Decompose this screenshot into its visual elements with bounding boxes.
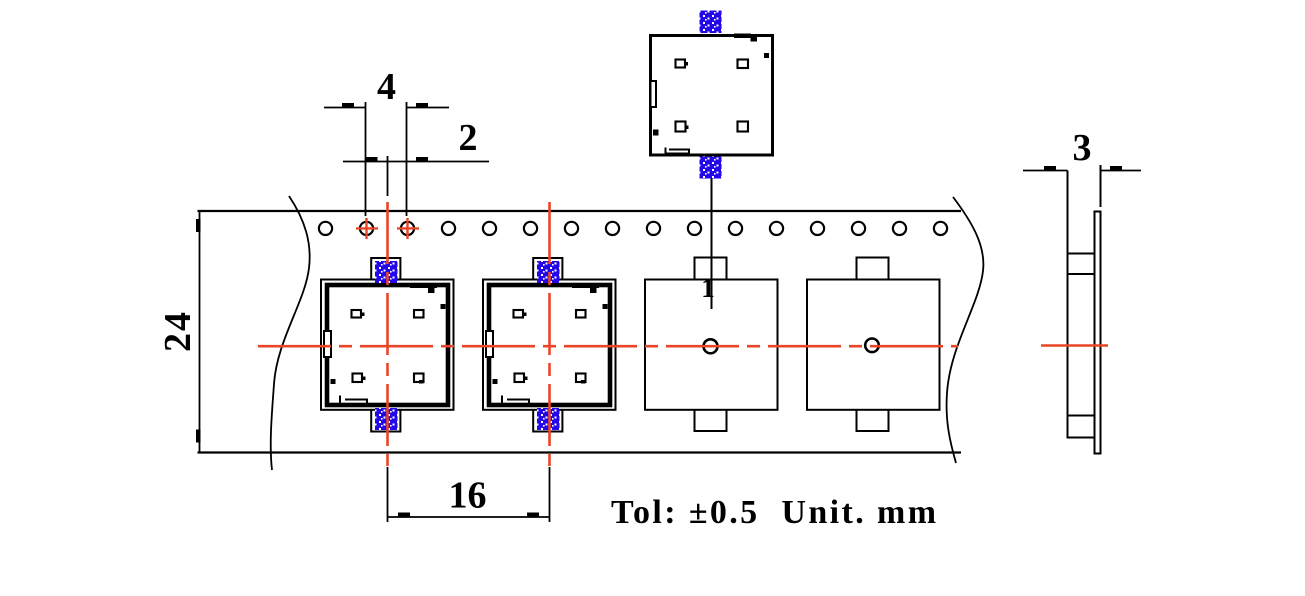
dim 2 <box>343 117 489 196</box>
bottom blue tab <box>700 156 722 179</box>
top blue tab <box>375 261 398 283</box>
component 2 left edge notch <box>486 331 493 357</box>
bottom blue tab <box>375 408 398 430</box>
bottom-left dot <box>653 130 659 136</box>
svg-text:4: 4 <box>377 66 396 108</box>
red centerline <box>1041 344 1108 347</box>
right extension <box>1100 165 1102 207</box>
left edge notch <box>324 331 331 357</box>
dim 24 <box>157 211 201 453</box>
bottom bar <box>666 148 690 154</box>
tape bottom edge <box>198 451 962 453</box>
left profile edge <box>1067 171 1069 439</box>
pocket 4 top notch <box>857 258 889 280</box>
component body <box>327 285 448 405</box>
center hole <box>704 339 718 353</box>
component 2 top-right bar <box>572 284 599 289</box>
bottom-left L mark <box>340 396 367 405</box>
dim 4 <box>324 66 449 216</box>
pocket 4 outline <box>807 280 940 410</box>
pocket 4 center hole <box>865 339 879 353</box>
top-right bar <box>734 34 751 39</box>
top blue tab 2 <box>537 261 560 283</box>
svg-text:16: 16 <box>449 475 487 517</box>
right dot <box>764 53 769 58</box>
leader line to pocket 3 <box>711 179 713 310</box>
pocket 2 bottom notch <box>533 410 562 432</box>
pocket 3 bottom notch <box>695 410 727 431</box>
svg-text:2: 2 <box>459 117 478 159</box>
svg-text:1: 1 <box>701 273 715 303</box>
pocket 3 top notch <box>695 258 727 280</box>
component 2 bottom-left mark <box>502 396 529 405</box>
bottom blue tab 2 <box>537 408 560 430</box>
right dot <box>441 304 446 309</box>
dim 3 <box>1023 170 1068 172</box>
right break line <box>947 197 984 463</box>
vertical red centerline pocket 2 <box>548 202 551 466</box>
pocket 4 bottom notch <box>857 410 889 431</box>
bottom-left dot <box>331 379 336 384</box>
pocket 2 outline <box>483 280 616 410</box>
tape strip <box>1095 212 1101 454</box>
bottom notch outline <box>371 410 400 432</box>
top blue tab <box>700 11 722 34</box>
body <box>651 36 773 156</box>
pocket 2 top notch <box>533 258 562 280</box>
svg-text:24: 24 <box>157 310 199 352</box>
svg-text:3: 3 <box>1073 127 1092 169</box>
component 2 feet <box>514 310 586 382</box>
vertical red centerline <box>386 202 389 466</box>
tape top edge <box>198 210 962 212</box>
svg-text:Tol: ±0.5 Unit. mm: Tol: ±0.5 Unit. mm <box>611 494 938 531</box>
left edge notch <box>651 81 657 107</box>
top notch outline <box>371 258 400 280</box>
pocket 3 outline <box>645 280 778 410</box>
component body 2 <box>489 285 610 405</box>
horizontal red centerline <box>258 345 958 348</box>
red hole crosses <box>356 218 419 239</box>
dim 16 <box>388 467 550 522</box>
top-right bar <box>410 284 437 289</box>
feet <box>352 310 424 382</box>
sprocket holes <box>319 222 947 235</box>
feet <box>676 60 749 132</box>
left break line <box>271 196 310 470</box>
rungs <box>1068 253 1095 255</box>
pocket outline <box>321 280 454 410</box>
